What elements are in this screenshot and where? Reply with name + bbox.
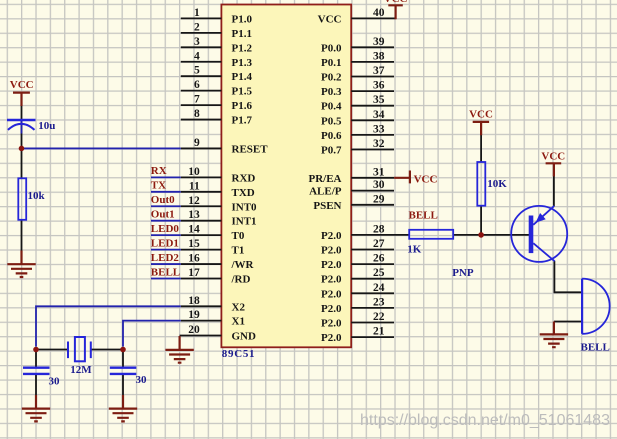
svg-text:TX: TX <box>151 180 166 192</box>
svg-text:32: 32 <box>373 138 385 150</box>
svg-text:P1.7: P1.7 <box>232 115 253 127</box>
svg-text:VCC: VCC <box>384 0 408 5</box>
svg-text:P2.0: P2.0 <box>321 230 342 242</box>
svg-text:Out1: Out1 <box>151 209 175 221</box>
svg-text:/WR: /WR <box>231 259 255 271</box>
svg-text:13: 13 <box>188 209 200 221</box>
svg-text:38: 38 <box>373 50 385 62</box>
svg-text:1K: 1K <box>407 243 422 255</box>
svg-text:VCC: VCC <box>541 150 565 162</box>
svg-text:P0.4: P0.4 <box>321 101 342 113</box>
svg-text:30: 30 <box>136 374 148 386</box>
svg-text:INT1: INT1 <box>232 216 257 228</box>
svg-text:39: 39 <box>373 36 385 48</box>
svg-text:23: 23 <box>373 296 385 308</box>
svg-text:LED1: LED1 <box>151 237 179 249</box>
svg-text:16: 16 <box>188 253 200 265</box>
svg-text:P2.0: P2.0 <box>321 259 342 271</box>
svg-text:30: 30 <box>373 179 385 191</box>
svg-text:6: 6 <box>194 79 200 91</box>
svg-text:GND: GND <box>232 331 257 343</box>
svg-text:VCC: VCC <box>318 13 342 25</box>
svg-text:26: 26 <box>373 253 385 265</box>
svg-text:RESET: RESET <box>232 143 269 155</box>
svg-text:30: 30 <box>49 376 61 388</box>
svg-text:LED0: LED0 <box>151 223 180 235</box>
svg-text:40: 40 <box>373 7 385 19</box>
svg-text:RXD: RXD <box>232 172 256 184</box>
svg-text:BELL: BELL <box>409 209 438 221</box>
svg-text:36: 36 <box>373 80 385 92</box>
svg-text:5: 5 <box>194 65 200 77</box>
svg-text:P1.4: P1.4 <box>232 71 253 83</box>
svg-text:22: 22 <box>373 311 385 323</box>
svg-text:2: 2 <box>194 21 200 33</box>
svg-text:LED2: LED2 <box>151 252 180 264</box>
svg-text:19: 19 <box>188 309 200 321</box>
svg-text:P0.2: P0.2 <box>321 72 342 84</box>
svg-text:12: 12 <box>188 195 200 207</box>
svg-text:P2.0: P2.0 <box>321 303 342 315</box>
svg-text:8: 8 <box>194 108 200 120</box>
svg-text:P2.0: P2.0 <box>321 332 342 344</box>
svg-text:37: 37 <box>373 65 385 77</box>
svg-text:TXD: TXD <box>232 187 255 199</box>
svg-text:X1: X1 <box>232 316 245 328</box>
svg-text:29: 29 <box>373 193 385 205</box>
svg-text:P1.1: P1.1 <box>232 28 252 40</box>
svg-text:14: 14 <box>188 224 200 236</box>
svg-text:18: 18 <box>188 295 200 307</box>
svg-text:Out0: Out0 <box>151 194 175 206</box>
svg-text:P1.3: P1.3 <box>232 57 253 69</box>
svg-text:P2.0: P2.0 <box>321 274 342 286</box>
svg-text:27: 27 <box>373 238 385 250</box>
svg-text:BELL: BELL <box>151 266 180 278</box>
svg-text:12M: 12M <box>70 364 92 376</box>
svg-text:1: 1 <box>194 7 200 19</box>
svg-text:T0: T0 <box>232 230 245 242</box>
svg-text:RX: RX <box>151 165 167 177</box>
svg-text:P0.7: P0.7 <box>321 145 342 157</box>
svg-text:/RD: /RD <box>231 274 251 286</box>
svg-text:VCC: VCC <box>414 173 438 185</box>
svg-text:33: 33 <box>373 123 385 135</box>
svg-text:35: 35 <box>373 94 385 106</box>
svg-text:P1.6: P1.6 <box>232 100 253 112</box>
svg-text:10: 10 <box>188 166 200 178</box>
svg-text:VCC: VCC <box>469 108 493 120</box>
svg-text:X2: X2 <box>232 301 246 313</box>
svg-text:P0.5: P0.5 <box>321 115 342 127</box>
svg-text:10K: 10K <box>487 178 507 190</box>
svg-text:17: 17 <box>188 267 200 279</box>
svg-text:11: 11 <box>189 180 200 192</box>
svg-text:4: 4 <box>194 50 200 62</box>
svg-text:BELL: BELL <box>581 341 610 353</box>
svg-text:P0.3: P0.3 <box>321 86 342 98</box>
svg-text:PNP: PNP <box>452 267 474 279</box>
svg-text:34: 34 <box>373 109 385 121</box>
svg-text:P2.0: P2.0 <box>321 245 342 257</box>
svg-text:28: 28 <box>373 223 385 235</box>
svg-text:3: 3 <box>194 36 200 48</box>
svg-text:P0.0: P0.0 <box>321 42 342 54</box>
svg-text:21: 21 <box>373 326 385 338</box>
svg-text:7: 7 <box>194 94 200 106</box>
svg-text:P2.0: P2.0 <box>321 288 342 300</box>
svg-text:P1.5: P1.5 <box>232 86 253 98</box>
svg-text:10u: 10u <box>38 120 55 132</box>
svg-text:P2.0: P2.0 <box>321 318 342 330</box>
svg-text:P0.1: P0.1 <box>321 57 341 69</box>
svg-text:INT0: INT0 <box>232 201 258 213</box>
svg-text:VCC: VCC <box>10 79 34 91</box>
svg-text:10k: 10k <box>28 190 46 202</box>
svg-text:20: 20 <box>188 324 200 336</box>
svg-text:89C51: 89C51 <box>222 348 255 360</box>
svg-text:25: 25 <box>373 267 385 279</box>
svg-text:PR/EA: PR/EA <box>309 173 342 185</box>
svg-text:https://blog.csdn.net/m0_51061: https://blog.csdn.net/m0_51061483 <box>360 412 610 429</box>
svg-text:15: 15 <box>188 238 200 250</box>
svg-text:P0.6: P0.6 <box>321 130 342 142</box>
svg-text:9: 9 <box>194 137 200 149</box>
svg-text:T1: T1 <box>232 245 245 257</box>
svg-text:24: 24 <box>373 282 385 294</box>
svg-text:P1.2: P1.2 <box>232 42 253 54</box>
svg-text:P1.0: P1.0 <box>232 13 253 25</box>
svg-text:ALE/P: ALE/P <box>309 186 342 198</box>
svg-text:PSEN: PSEN <box>313 200 341 212</box>
svg-text:31: 31 <box>373 166 385 178</box>
